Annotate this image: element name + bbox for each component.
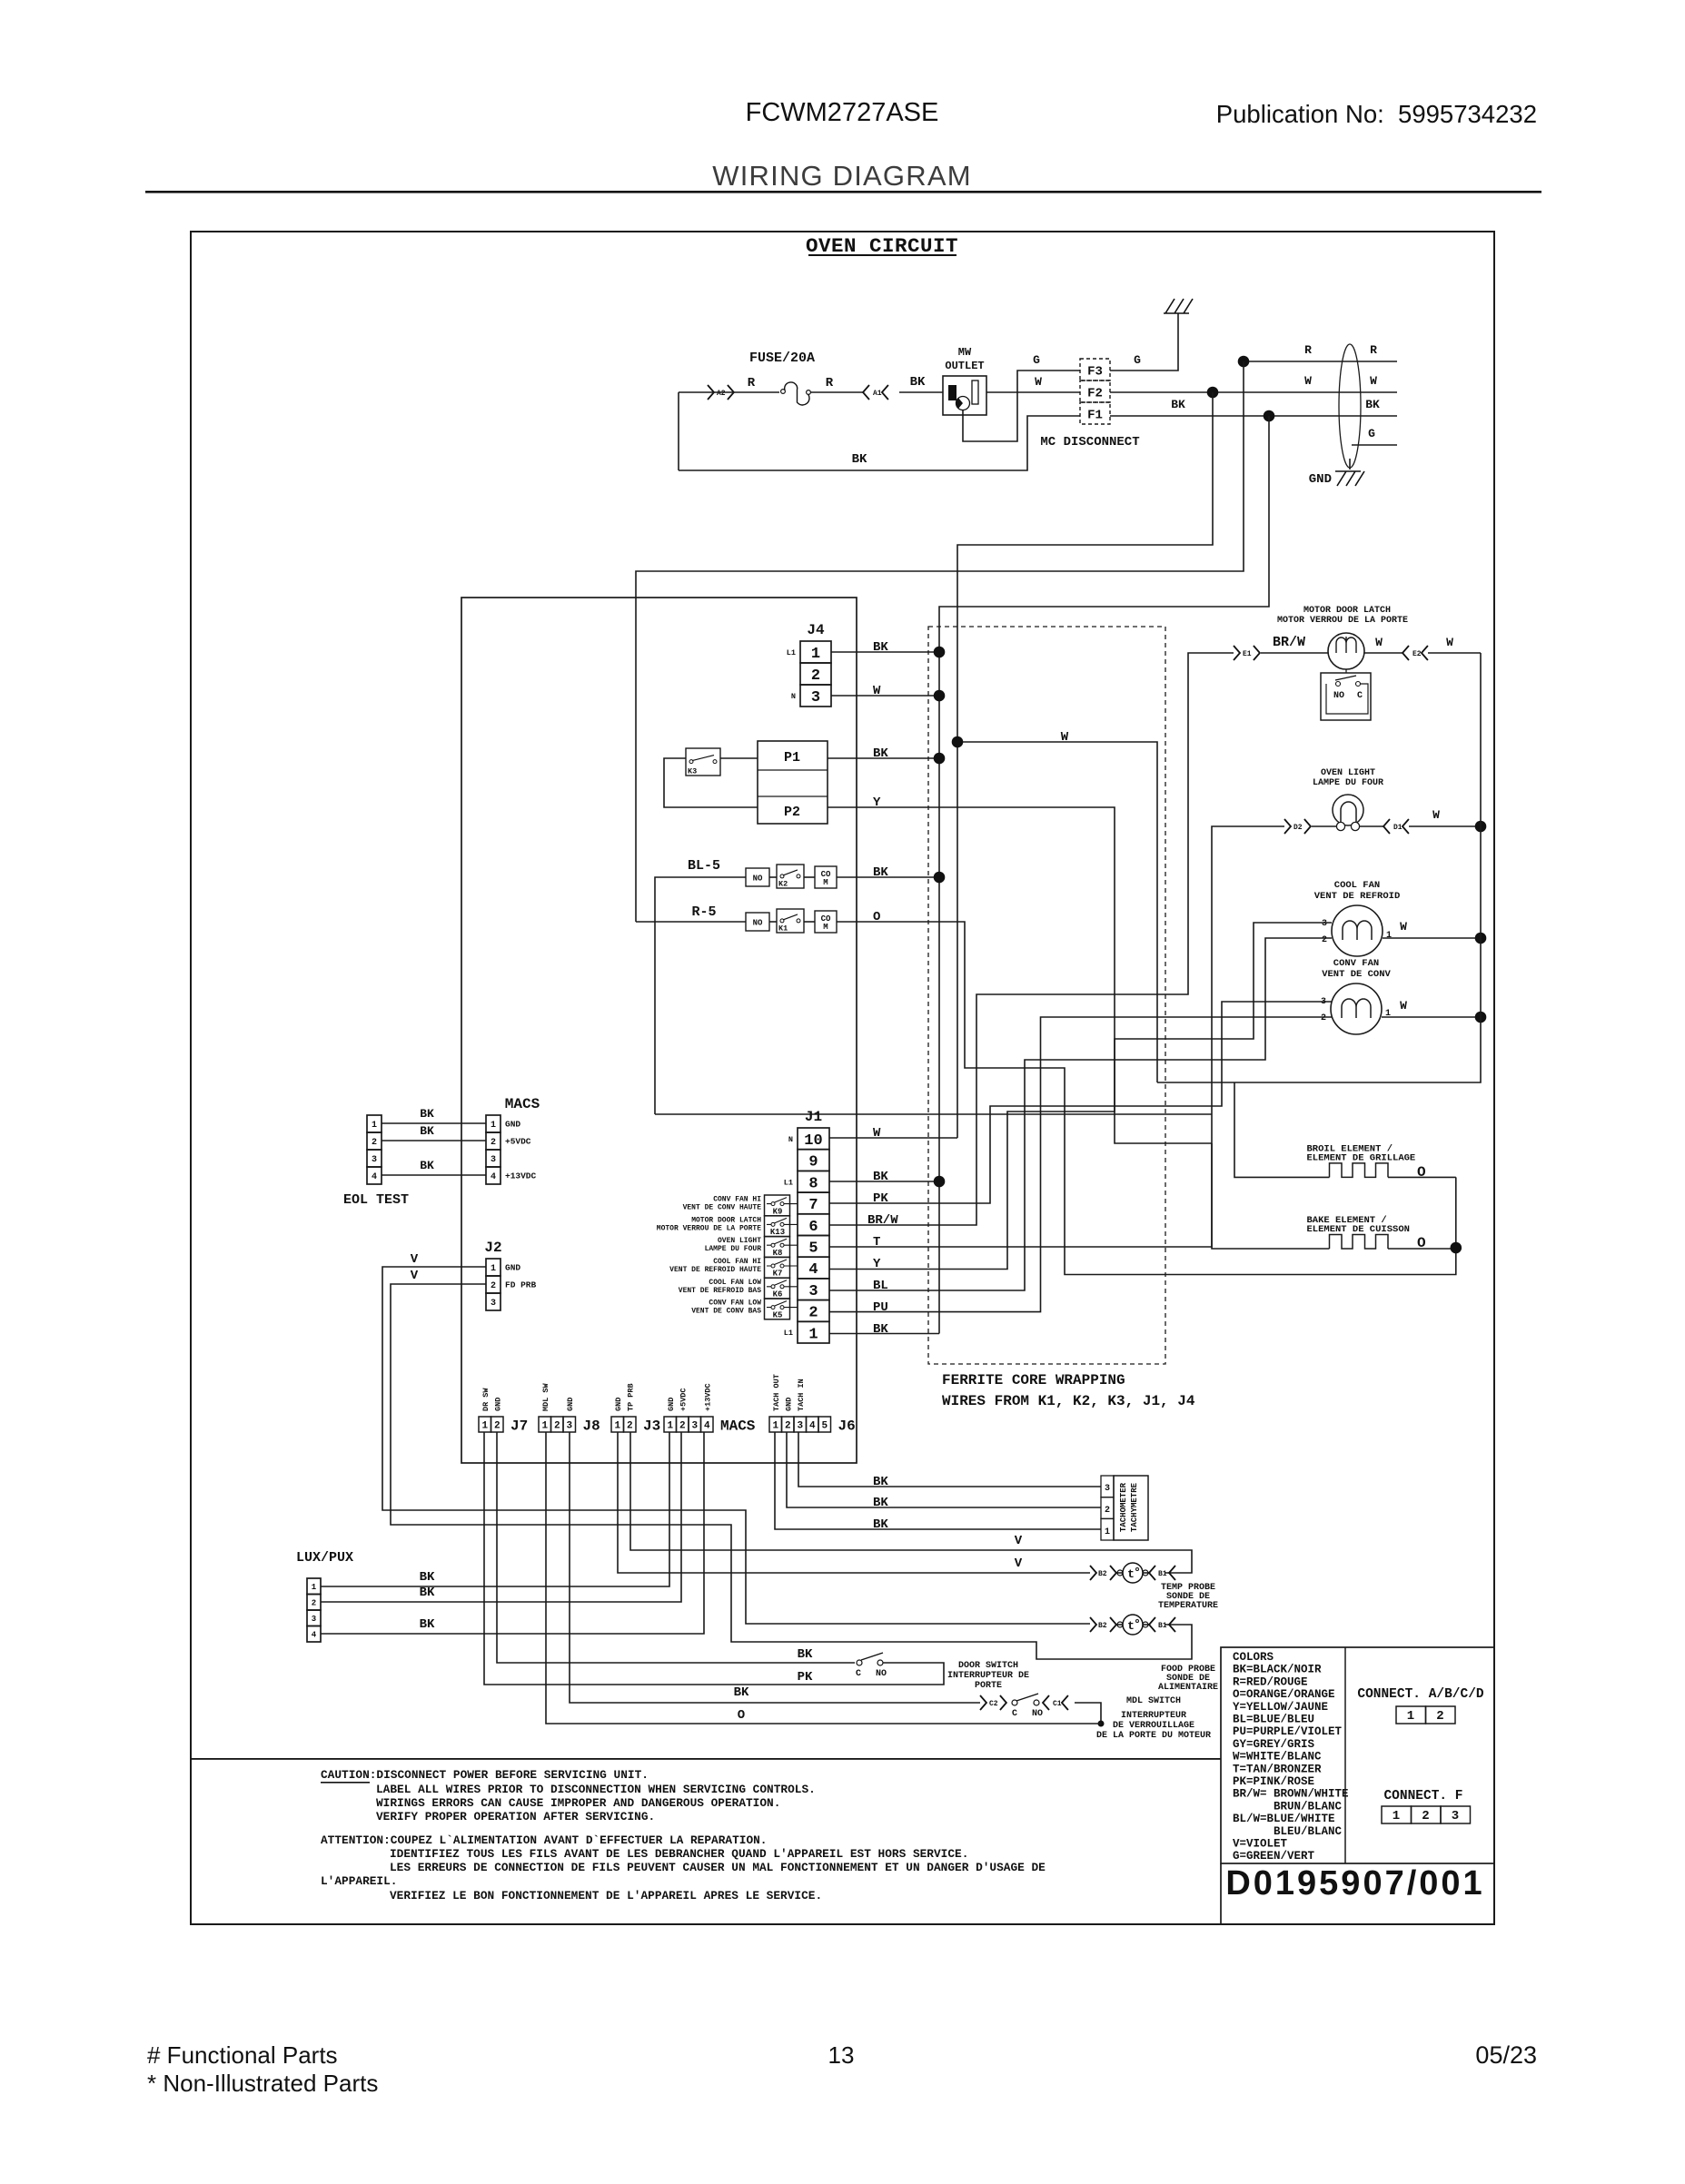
svg-text:J8: J8 [583, 1418, 600, 1435]
svg-text:ELEMENT DE CUISSON: ELEMENT DE CUISSON [1307, 1224, 1410, 1235]
svg-text:W: W [1400, 999, 1407, 1013]
wire J2 pin1 V [382, 1267, 1090, 1624]
svg-text:4: 4 [808, 1261, 818, 1279]
svg-text:F1: F1 [1087, 409, 1103, 423]
wire A1 to MW outlet [899, 391, 943, 393]
wire NO to K1 [769, 921, 777, 923]
relay contact K1 [777, 909, 804, 934]
contact NO K2row [746, 868, 769, 886]
door switch [856, 1653, 887, 1679]
svg-text:P1: P1 [784, 750, 800, 766]
wire door switch return [484, 1432, 944, 1685]
svg-text:K1: K1 [778, 924, 788, 934]
svg-text:INTERRUPTEUR DE: INTERRUPTEUR DE [947, 1671, 1029, 1681]
svg-text:MOTOR VERROU DE LA PORTE: MOTOR VERROU DE LA PORTE [1277, 616, 1408, 626]
svg-text:3: 3 [566, 1421, 572, 1432]
connector MACS upper [486, 1096, 540, 1184]
contact NO K1row [746, 913, 769, 931]
connector arrow C2 [980, 1695, 986, 1710]
wire broil right lead [1388, 1176, 1456, 1178]
wire fuse to A1 [810, 391, 863, 393]
fuse F1 FUSE/20A [781, 382, 811, 405]
svg-text:1: 1 [541, 1421, 548, 1432]
svg-text:GND: GND [505, 1263, 520, 1273]
junction J4 BK [934, 647, 946, 658]
svg-text:Y: Y [873, 1257, 881, 1271]
svg-text:9: 9 [808, 1154, 818, 1171]
wire tach BK pin2 [787, 1432, 1101, 1507]
svg-text:BK: BK [420, 1586, 435, 1600]
svg-text:V: V [1015, 1556, 1023, 1571]
svg-text:t: t [1127, 1619, 1135, 1633]
svg-text:PU=PURPLE/VIOLET: PU=PURPLE/VIOLET [1233, 1725, 1343, 1738]
wire K3 to P1 [720, 757, 758, 759]
relay contact K2 [777, 865, 804, 889]
svg-text:3: 3 [1321, 997, 1326, 1007]
svg-text:BK: BK [852, 452, 867, 467]
wire J1 pin3 BL [829, 938, 1332, 1290]
svg-text:2: 2 [808, 1305, 818, 1322]
svg-text:LAMPE DU FOUR: LAMPE DU FOUR [705, 1245, 762, 1253]
wire R net to R-5 [636, 361, 1244, 922]
wire EOL pin1 BK [382, 1122, 486, 1124]
svg-text:5: 5 [821, 1421, 828, 1432]
svg-text:FUSE/20A: FUSE/20A [749, 351, 815, 366]
svg-text:BK: BK [873, 1322, 888, 1337]
svg-text:MACS: MACS [720, 1418, 756, 1435]
wire bake left lead [1212, 1143, 1330, 1249]
connector J6 [769, 1374, 856, 1434]
contact COM K2row [815, 866, 837, 888]
svg-text:A2: A2 [717, 390, 726, 398]
svg-text:W=WHITE/BLANC: W=WHITE/BLANC [1233, 1751, 1322, 1764]
junction K2 BK [934, 872, 946, 884]
svg-text:4: 4 [809, 1421, 816, 1432]
svg-text:C1: C1 [1053, 1700, 1062, 1708]
wire K1 to COM [804, 921, 815, 923]
wire F3 to ground [1110, 313, 1178, 371]
svg-text:B1: B1 [1158, 1622, 1167, 1630]
svg-text:2: 2 [494, 1421, 501, 1432]
svg-text:3: 3 [808, 1283, 818, 1300]
broil element [1307, 1143, 1427, 1181]
svg-text:W: W [1400, 920, 1407, 934]
wire BK return bottom [679, 416, 1080, 470]
svg-text:D2: D2 [1293, 824, 1303, 832]
svg-text:LUX/PUX: LUX/PUX [296, 1550, 353, 1566]
svg-text:TACH OUT: TACH OUT [772, 1374, 781, 1411]
svg-text:K9: K9 [773, 1207, 783, 1216]
svg-text:O: O [1417, 1164, 1426, 1181]
wire J4 pin3 W [831, 695, 939, 697]
svg-text:BK: BK [873, 1496, 888, 1510]
svg-text:FERRITE CORE WRAPPING: FERRITE CORE WRAPPING [942, 1372, 1125, 1388]
svg-text:3: 3 [491, 1299, 496, 1309]
svg-text:4: 4 [704, 1421, 710, 1432]
cool fan motor [1314, 880, 1401, 956]
junction oven light W [1475, 821, 1487, 833]
svg-text:3: 3 [312, 1615, 316, 1624]
wire K2 to COM [804, 876, 815, 878]
svg-text:PORTE: PORTE [975, 1681, 1002, 1691]
svg-text:BR/W: BR/W [1273, 635, 1305, 650]
svg-text:3: 3 [372, 1155, 377, 1165]
svg-text:PK: PK [873, 1191, 888, 1206]
svg-text:1: 1 [667, 1421, 673, 1432]
wire MW outlet bottom to F3 [963, 371, 1080, 441]
svg-text:K13: K13 [770, 1228, 785, 1237]
svg-text:TACH IN: TACH IN [797, 1379, 806, 1411]
svg-text:OVEN LIGHT: OVEN LIGHT [1321, 768, 1375, 778]
svg-text:L1: L1 [787, 648, 796, 657]
wire F2 white to harness [1110, 391, 1397, 393]
wire J1 pin8 BK [829, 1181, 939, 1182]
svg-text:MDL SW: MDL SW [541, 1382, 550, 1411]
svg-text:2: 2 [1436, 1709, 1443, 1724]
svg-text:V: V [1015, 1534, 1023, 1548]
food probe [1090, 1615, 1218, 1693]
svg-text:VENT DE CONV HAUTE: VENT DE CONV HAUTE [683, 1204, 762, 1212]
svg-text:T: T [873, 1235, 880, 1250]
svg-text:R: R [748, 376, 756, 390]
svg-text:O: O [738, 1708, 745, 1723]
wire motor to E2 [1364, 652, 1403, 654]
svg-text:3: 3 [491, 1155, 496, 1165]
wire A2 return left vertical [678, 392, 679, 470]
svg-text:CAUTION:DISCONNECT POWER BEFOR: CAUTION:DISCONNECT POWER BEFORE SERVICIN… [321, 1768, 649, 1782]
contact COM K1row [815, 911, 837, 933]
svg-text:DR SW: DR SW [481, 1388, 491, 1411]
svg-text:# Functional Parts: # Functional Parts [147, 2041, 338, 2069]
svg-text:1: 1 [772, 1421, 778, 1432]
wire NO to K2 [769, 876, 777, 878]
cable harness ellipse [1339, 344, 1361, 468]
svg-text:COOL FAN LOW: COOL FAN LOW [709, 1279, 761, 1287]
svg-text:BLEU/BLANC: BLEU/BLANC [1274, 1825, 1343, 1838]
svg-text:D1: D1 [1393, 824, 1403, 832]
svg-text:3: 3 [691, 1421, 698, 1432]
svg-text:K8: K8 [773, 1249, 783, 1258]
svg-text:BL=BLUE/BLEU: BL=BLUE/BLEU [1233, 1714, 1314, 1726]
wire W net vertical [957, 392, 1213, 1138]
motor door latch M1 [1328, 633, 1364, 673]
junction J4 W [934, 690, 946, 702]
svg-text:PU: PU [873, 1300, 888, 1315]
connector P1 P2 [758, 741, 828, 824]
wire R to harness [1244, 361, 1397, 362]
wire V to temp probe top [630, 1432, 1192, 1573]
svg-text:K3: K3 [688, 767, 697, 776]
svg-text:t: t [1127, 1567, 1135, 1581]
svg-text:D0195907/001: D0195907/001 [1225, 1864, 1484, 1902]
svg-text:VERIFIEZ LE BON FONCTIONNEMENT: VERIFIEZ LE BON FONCTIONNEMENT DE L'APPA… [390, 1889, 822, 1902]
svg-text:J6: J6 [838, 1418, 856, 1435]
svg-text:3: 3 [1322, 919, 1327, 929]
wire J1 pin7 PK [829, 1002, 1332, 1203]
connector arrow E1 [1234, 646, 1240, 660]
svg-text:L1: L1 [784, 1329, 793, 1338]
svg-text:MW: MW [958, 346, 972, 359]
svg-text:C2: C2 [989, 1700, 998, 1708]
svg-text:F2: F2 [1087, 387, 1103, 401]
svg-text:BL: BL [873, 1279, 888, 1293]
svg-text:W: W [1446, 636, 1453, 649]
svg-text:E1: E1 [1243, 650, 1252, 658]
svg-text:BK: BK [420, 1159, 434, 1172]
svg-text:2: 2 [811, 667, 820, 685]
svg-text:2: 2 [312, 1598, 316, 1607]
wire MW outlet to F2 [986, 391, 1080, 393]
svg-text:A1: A1 [873, 390, 882, 398]
svg-text:1: 1 [491, 1264, 496, 1274]
svg-text:FCWM2727ASE: FCWM2727ASE [746, 98, 939, 127]
svg-text:W: W [1061, 730, 1069, 745]
svg-text:J2: J2 [484, 1240, 501, 1256]
svg-text:ALIMENTAIRE: ALIMENTAIRE [1158, 1683, 1218, 1693]
svg-text:G: G [1033, 353, 1040, 367]
svg-text:J7: J7 [510, 1418, 528, 1435]
svg-text:4: 4 [491, 1172, 496, 1182]
connector LUX/PUX [307, 1578, 321, 1642]
svg-text:4: 4 [372, 1172, 377, 1182]
outer border [191, 232, 1494, 1924]
svg-text:R-5: R-5 [691, 904, 716, 920]
svg-text:DE VERROUILLAGE: DE VERROUILLAGE [1113, 1721, 1194, 1731]
wire R-5 left [636, 921, 746, 923]
svg-text:COOL FAN HI: COOL FAN HI [713, 1258, 761, 1266]
svg-text:GND: GND [614, 1398, 623, 1411]
svg-text:MOTOR DOOR LATCH: MOTOR DOOR LATCH [1303, 606, 1391, 616]
svg-text:C: C [1012, 1709, 1017, 1719]
svg-text:8: 8 [808, 1175, 818, 1192]
svg-text:ATTENTION:COUPEZ L`ALIMENTATIO: ATTENTION:COUPEZ L`ALIMENTATION AVANT D`… [321, 1833, 767, 1847]
svg-text:WIRES FROM K1, K2, K3, J1, J4: WIRES FROM K1, K2, K3, J1, J4 [942, 1393, 1195, 1409]
svg-text:MOTOR VERROU DE LA PORTE: MOTOR VERROU DE LA PORTE [657, 1224, 761, 1232]
svg-text:MACS: MACS [505, 1096, 540, 1112]
svg-text:7: 7 [808, 1197, 818, 1214]
svg-text:R: R [1304, 343, 1312, 357]
junction J1 pin8 BK [934, 1176, 946, 1188]
svg-text:TP PRB: TP PRB [626, 1383, 635, 1411]
svg-text:10: 10 [804, 1132, 822, 1150]
connector arrow D1 [1383, 819, 1390, 834]
svg-text:CONNECT. A/B/C/D: CONNECT. A/B/C/D [1357, 1687, 1484, 1702]
svg-text:3: 3 [811, 689, 820, 707]
connector J1 [784, 1109, 829, 1343]
svg-text:K5: K5 [773, 1310, 783, 1319]
wire harness to GND [1349, 459, 1351, 469]
svg-text:+13VDC: +13VDC [703, 1383, 712, 1411]
connector EOL TEST [367, 1115, 382, 1184]
relay contact K13 [765, 1216, 790, 1237]
wire E1 to motor [1261, 652, 1328, 654]
wire D2 to lamp [1312, 825, 1336, 827]
svg-text:BK=BLACK/NOIR: BK=BLACK/NOIR [1233, 1664, 1322, 1676]
svg-text:W: W [1432, 808, 1440, 822]
svg-text:VENT DE REFROID BAS: VENT DE REFROID BAS [679, 1287, 761, 1295]
svg-text:BK: BK [420, 1617, 435, 1632]
junction W bus [952, 736, 964, 748]
svg-text:Y=YELLOW/JAUNE: Y=YELLOW/JAUNE [1233, 1701, 1328, 1714]
connector key A/B/C/D [1396, 1706, 1426, 1724]
wire A2 to fuse [679, 391, 779, 393]
connector J2 [484, 1240, 536, 1310]
svg-text:1: 1 [1393, 1809, 1400, 1823]
svg-text:BK: BK [873, 865, 888, 880]
wire P2 Y [828, 807, 1212, 1143]
svg-text:WIRINGS ERRORS CAN CAUSE IMPRO: WIRINGS ERRORS CAN CAUSE IMPROPER AND DA… [376, 1796, 780, 1810]
svg-text:BK: BK [420, 1107, 434, 1121]
junction W [1207, 387, 1219, 399]
svg-text:1: 1 [1386, 931, 1392, 941]
svg-text:2: 2 [554, 1421, 560, 1432]
bake element [1307, 1215, 1427, 1251]
svg-text:M: M [823, 878, 828, 887]
chassis ground top [1164, 299, 1193, 313]
svg-text:C: C [1357, 691, 1363, 701]
svg-text:CONV FAN HI: CONV FAN HI [713, 1196, 761, 1204]
svg-text:BK: BK [1171, 398, 1185, 411]
wire J2 pin2 V [391, 1284, 1192, 1659]
relay contact K8 [765, 1237, 790, 1258]
svg-text:COOL FAN: COOL FAN [1334, 880, 1380, 891]
svg-text:J1: J1 [805, 1109, 822, 1125]
svg-text:BK: BK [873, 1475, 888, 1489]
wire J1 pin10 W [829, 1137, 957, 1139]
connector J3 [611, 1383, 660, 1434]
svg-text:GND: GND [493, 1398, 502, 1411]
svg-text:BK: BK [420, 1124, 434, 1138]
wire J1 pin2 PU [829, 1017, 1332, 1312]
svg-text:VENT DE CONV BAS: VENT DE CONV BAS [691, 1308, 761, 1316]
relay contact K7 [765, 1257, 790, 1278]
header rule [145, 191, 1541, 193]
wire MDL O [546, 1432, 1101, 1724]
relay contact K9 [765, 1195, 790, 1216]
svg-text:CONV FAN: CONV FAN [1333, 958, 1379, 969]
connector arrow D2 [1284, 819, 1291, 834]
svg-text:TACHYMETRE: TACHYMETRE [1130, 1482, 1139, 1532]
tachometer box [1101, 1476, 1148, 1540]
svg-text:2: 2 [785, 1421, 791, 1432]
junction cool fan W [1475, 933, 1487, 944]
svg-text:NO: NO [1032, 1709, 1043, 1719]
svg-text:1: 1 [614, 1421, 620, 1432]
svg-text:1: 1 [1105, 1527, 1110, 1537]
svg-text:2: 2 [1422, 1809, 1429, 1823]
wire J4 pin1 BK [831, 651, 939, 653]
svg-text:MC DISCONNECT: MC DISCONNECT [1040, 435, 1139, 450]
svg-text:COLORS: COLORS [1233, 1651, 1274, 1664]
junction P1 BK [934, 753, 946, 765]
svg-text:BK: BK [873, 1170, 888, 1184]
svg-text:1: 1 [811, 646, 820, 663]
junction BK [1264, 410, 1275, 422]
svg-text:2: 2 [1322, 935, 1327, 945]
oven light lamp [1333, 795, 1363, 831]
svg-text:1: 1 [481, 1421, 488, 1432]
svg-text:ELEMENT DE GRILLAGE: ELEMENT DE GRILLAGE [1307, 1152, 1416, 1163]
svg-text:MDL SWITCH: MDL SWITCH [1126, 1696, 1181, 1706]
svg-text:BR/W= BROWN/WHITE: BR/W= BROWN/WHITE [1233, 1788, 1349, 1801]
svg-text:05/23: 05/23 [1475, 2041, 1537, 2069]
junction elements O [1451, 1242, 1462, 1254]
svg-text:DOOR SWITCH: DOOR SWITCH [958, 1661, 1018, 1671]
svg-text:P2: P2 [784, 805, 800, 820]
svg-text:L'APPAREIL.: L'APPAREIL. [321, 1874, 397, 1888]
wire G from harness [1352, 444, 1397, 446]
svg-text:GND: GND [784, 1398, 793, 1411]
svg-text:1: 1 [491, 1121, 496, 1131]
junction conv fan W [1475, 1012, 1487, 1023]
connector arrow A1 [863, 385, 869, 400]
wire BL-5 left [655, 877, 746, 1114]
svg-text:VERIFY PROPER OPERATION AFTER: VERIFY PROPER OPERATION AFTER SERVICING. [376, 1810, 655, 1823]
svg-text:+13VDC: +13VDC [505, 1171, 537, 1181]
wire K2 BK [837, 876, 939, 878]
temp probe [1090, 1563, 1218, 1611]
svg-text:O=ORANGE/ORANGE: O=ORANGE/ORANGE [1233, 1688, 1335, 1701]
wire BK net vertical [939, 416, 1269, 1334]
wire BL-5 lower route [655, 1113, 1212, 1115]
svg-text:C: C [856, 1669, 861, 1679]
svg-text:NO: NO [753, 919, 763, 928]
svg-text:M: M [823, 923, 828, 932]
wire P1 BK [828, 757, 939, 759]
svg-text:K6: K6 [773, 1290, 783, 1300]
svg-text:3: 3 [1452, 1809, 1459, 1823]
svg-text:NO: NO [1333, 691, 1344, 701]
wire D1 to W bus [1409, 825, 1481, 827]
svg-text:OUTLET: OUTLET [945, 360, 984, 372]
wire V to temp probe [618, 1432, 1090, 1573]
MW outlet [943, 376, 986, 415]
MDL switch contacts [1012, 1694, 1043, 1719]
svg-text:W: W [1370, 374, 1377, 388]
conv fan motor [1321, 958, 1392, 1034]
ferrite core wrapping box [928, 627, 1165, 1364]
connector arrow A2 [708, 385, 714, 400]
wire C1 to junction [1075, 1703, 1101, 1724]
svg-text:VENT DE CONV: VENT DE CONV [1322, 969, 1391, 980]
separator line above caution [191, 1758, 1221, 1760]
wire EOL pin2 BK [382, 1140, 486, 1141]
svg-text:O: O [873, 910, 880, 924]
wire tach BK pin3 [798, 1432, 1101, 1487]
wire LUX pin2 BK [321, 1432, 681, 1602]
svg-text:E2: E2 [1412, 650, 1422, 658]
wire J1 pin5 T [829, 826, 1284, 1247]
relay contact K6 [765, 1278, 790, 1299]
svg-text:DE LA PORTE DU MOTEUR: DE LA PORTE DU MOTEUR [1096, 1731, 1211, 1741]
svg-text:F3: F3 [1087, 365, 1103, 380]
svg-text:2: 2 [491, 1138, 496, 1148]
svg-text:1: 1 [312, 1583, 317, 1592]
svg-text:B1: B1 [1158, 1570, 1167, 1578]
svg-text:* Non-Illustrated Parts: * Non-Illustrated Parts [147, 2070, 378, 2097]
svg-text:BK: BK [734, 1685, 749, 1700]
svg-text:W: W [873, 684, 881, 698]
junction MDL O [1098, 1721, 1105, 1727]
svg-text:1: 1 [808, 1326, 818, 1343]
svg-text:GY=GREY/GRIS: GY=GREY/GRIS [1233, 1738, 1315, 1751]
svg-text:V: V [411, 1269, 419, 1283]
svg-text:BK: BK [1365, 398, 1380, 411]
svg-text:W: W [1304, 374, 1312, 388]
svg-text:LAMPE DU FOUR: LAMPE DU FOUR [1313, 778, 1383, 788]
wire bake right lead [1388, 1248, 1456, 1250]
wire broil left lead [1234, 1082, 1330, 1177]
